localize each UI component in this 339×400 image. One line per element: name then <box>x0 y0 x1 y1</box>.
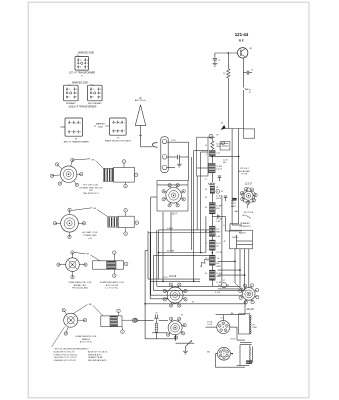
wire switch to speaker <box>246 215 251 218</box>
svg-text:25: 25 <box>223 73 225 75</box>
plug LP <box>154 315 156 319</box>
svg-text:L5: L5 <box>251 70 253 72</box>
feed row y275.1 <box>218 274 245 276</box>
wire bus x150.2 <box>149 233 151 299</box>
tube V7 socket <box>166 188 182 204</box>
wire R7 down <box>211 280 213 286</box>
svg-text:A TO C PCS.: A TO C PCS. <box>80 341 93 344</box>
output transformer box <box>239 314 250 334</box>
antenna terminal strip TS1 <box>161 137 168 173</box>
choke coil L10 <box>249 346 250 364</box>
svg-text:P2: P2 <box>115 131 117 133</box>
svg-text:P2: P2 <box>71 131 73 133</box>
feed row y270.1 <box>218 269 240 271</box>
wire bus x200.7 <box>200 152 202 253</box>
svg-text:L5: L5 <box>217 258 219 260</box>
wire L5 to L6 <box>211 149 213 150</box>
tube V5 envelope outline <box>242 188 256 203</box>
svg-text:RED (BROADCAST): RED (BROADCAST) <box>88 359 107 362</box>
pin 1 of L3 <box>113 251 117 255</box>
bus row y232.5 <box>148 232 212 234</box>
svg-text:W: W <box>192 302 194 304</box>
svg-text:400 V: 400 V <box>216 198 222 200</box>
terminal G <box>162 165 167 170</box>
wire Q1 emitter down <box>242 58 244 71</box>
wire down to shield box <box>242 90 244 129</box>
transistor Q1 (RF) <box>238 48 248 58</box>
svg-text:4-5: 4-5 <box>216 246 219 248</box>
svg-text:P1: P1 <box>80 60 82 62</box>
coil L8 winding block <box>210 186 214 193</box>
svg-text:400: 400 <box>216 263 219 265</box>
pilot lamp DS1 <box>133 318 137 322</box>
detector diode CR1 <box>221 283 226 288</box>
svg-text:R.F.: R.F. <box>239 38 245 42</box>
tube V10 socket (inside pins) <box>218 347 231 360</box>
svg-text:BLUE-GRY TO TR-LTD: BLUE-GRY TO TR-LTD <box>54 351 75 353</box>
wire bend 235 to socket <box>235 283 243 291</box>
svg-text:12J-28: 12J-28 <box>246 308 254 311</box>
svg-text:45: 45 <box>205 197 207 199</box>
svg-text:45: 45 <box>224 241 226 243</box>
IF shield box <box>197 137 208 176</box>
resistor R3 block <box>209 226 215 236</box>
svg-text:P/N LB-LBL-BB1: P/N LB-LBL-BB1 <box>72 288 88 290</box>
wire V8 down <box>175 335 177 341</box>
svg-text:OHM: OHM <box>252 327 257 329</box>
svg-text:A.C. ANT. COIL: A.C. ANT. COIL <box>82 231 98 234</box>
coil L1 form outline <box>113 167 134 182</box>
bottom rail y338.8 <box>145 338 175 340</box>
svg-text:WAVE DETECTOR UNITS: WAVE DETECTOR UNITS <box>105 139 132 142</box>
wire stub into T4 <box>61 126 66 128</box>
pin 2 of L1 <box>134 173 138 177</box>
pin 3 of L4 <box>121 330 125 334</box>
wire bus x156.8 <box>156 230 158 286</box>
rail y314.7 <box>216 314 245 316</box>
svg-text:5 MEG: 5 MEG <box>167 228 173 230</box>
svg-text:(IN FRONT): (IN FRONT) <box>240 226 251 228</box>
svg-text:60 CYCLE: 60 CYCLE <box>244 212 254 214</box>
wire S3 pin1 to node N7 <box>74 253 86 254</box>
wire V9 top to rail <box>222 315 224 321</box>
coil L2 (ant coil) winding <box>108 217 118 227</box>
pin 1 of L1 <box>122 160 126 164</box>
svg-text:BAL: BAL <box>235 210 238 213</box>
wire S1 pin2 to node N5 <box>72 159 90 160</box>
wire pot to ground <box>184 346 186 351</box>
divider in power box <box>236 235 238 249</box>
svg-text:LC TO LT KC.: LC TO LT KC. <box>106 288 119 290</box>
svg-text:40 OHM: 40 OHM <box>167 250 174 252</box>
svg-text:1ST. I-F TRANSFORMER: 1ST. I-F TRANSFORMER <box>69 71 96 74</box>
svg-text:SIDE: SIDE <box>98 126 104 128</box>
wire node N5 to coil L1 <box>96 161 104 169</box>
potentiometer wiper <box>176 342 195 344</box>
svg-text:3RD I-F TRANSFORMER: 3RD I-F TRANSFORMER <box>63 140 89 143</box>
tube socket V2 bottom view <box>61 215 79 233</box>
svg-text:P1: P1 <box>69 89 71 91</box>
svg-text:.05: .05 <box>204 273 207 275</box>
stub chain to bus y150.5 <box>194 150 209 152</box>
coil L3 broadcast coil <box>93 261 124 269</box>
capacitor C3 <box>243 72 246 74</box>
svg-text:MARKED SIDE: MARKED SIDE <box>72 82 88 85</box>
wire bend x225 row <box>224 216 226 231</box>
svg-text:.1: .1 <box>205 243 207 245</box>
svg-text:MEG: MEG <box>216 232 221 234</box>
wire volume box down <box>155 332 157 339</box>
IF tube V7 shield box <box>157 181 188 212</box>
wire bus x153.6 <box>153 255 155 290</box>
svg-text:GREEN LYB MC: GREEN LYB MC <box>88 357 104 359</box>
junction x145 y303.8 <box>144 303 146 305</box>
feed row y286.3 <box>157 285 241 287</box>
pointer line to color table <box>52 327 65 347</box>
svg-text:45: 45 <box>181 315 183 317</box>
wire row y365.4 <box>237 364 250 366</box>
wire node N7 to coil L3 <box>91 255 101 261</box>
coil L2 form outline <box>118 216 134 228</box>
tube V8 socket (output) <box>168 321 182 335</box>
tube socket V1 bottom view <box>60 166 77 183</box>
wire R3 to R4 <box>211 236 213 240</box>
svg-text:(A): (A) <box>139 96 142 99</box>
svg-text:LPG: LPG <box>171 140 175 142</box>
resistor R4 block <box>209 240 215 250</box>
svg-text:(TUNING UNIT) P/N LTS: (TUNING UNIT) P/N LTS <box>79 187 103 189</box>
pin 3 of L3 <box>113 274 117 278</box>
svg-text:P1: P1 <box>93 89 95 91</box>
svg-text:PRIMARY: PRIMARY <box>66 102 76 105</box>
svg-text:(2ND) I-F TRANSFORMER: (2ND) I-F TRANSFORMER <box>69 105 97 108</box>
svg-text:L5: L5 <box>249 92 251 94</box>
svg-text:L5: L5 <box>221 317 223 319</box>
feed row y290.6 <box>154 290 245 292</box>
svg-text:P GRN-Y PTD TO TNT LB.: P GRN-Y PTD TO TNT LB. <box>54 354 78 356</box>
svg-text:TUNING UNIT: TUNING UNIT <box>83 235 97 237</box>
chain rail to spine <box>208 136 215 138</box>
wire bus x148 <box>147 231 149 279</box>
junction dots power feeds <box>234 261 236 263</box>
resistor R0 zigzag top <box>211 141 214 149</box>
svg-text:LT5 VOLT: LT5 VOLT <box>240 168 250 170</box>
svg-text:L5 MF: L5 MF <box>216 282 222 284</box>
wire terminal B to capacitor C1 <box>167 156 177 158</box>
bus row y252.5 with label <box>159 252 206 254</box>
svg-text:2-3 4.5: 2-3 4.5 <box>216 168 222 170</box>
svg-text:SECONDARY: SECONDARY <box>88 102 102 105</box>
wire feeds from power box down to V6 <box>234 249 236 283</box>
svg-text:L3: L3 <box>205 189 207 191</box>
pin 2 of L2 <box>135 221 139 225</box>
feed row y295.2 <box>150 294 242 296</box>
wire V10 right stub <box>230 353 233 355</box>
svg-text:BATT: BATT <box>231 205 237 208</box>
wire bus x158.5 <box>158 230 160 279</box>
wire bend to L9 bottom <box>237 339 245 341</box>
tube socket V3 wafer view <box>66 258 80 272</box>
transformer T1 pin view <box>75 57 89 71</box>
transformer T5 wave detector pin view <box>110 118 127 135</box>
wire V10 drop and bottom rail <box>214 354 216 368</box>
volume control box <box>155 323 158 332</box>
svg-text:L-40: L-40 <box>216 236 220 238</box>
svg-text:.1: .1 <box>205 154 207 156</box>
svg-text:P2: P2 <box>87 63 89 65</box>
wire chain A spine <box>211 138 213 141</box>
svg-text:B2 45: B2 45 <box>231 338 236 340</box>
small cap row 216 <box>217 215 219 218</box>
svg-text:BAND B: BAND B <box>82 338 90 341</box>
svg-text:MARKED: MARKED <box>96 123 106 126</box>
tube V6 socket <box>243 288 256 301</box>
transformer T2 primary pin view <box>64 85 79 101</box>
svg-text:P1: P1 <box>71 123 73 125</box>
svg-text:BROAD. SET: BROAD. SET <box>74 284 87 287</box>
trimmer caps right of chain <box>218 175 221 177</box>
wire R4 to R5 <box>211 250 213 255</box>
feed row y261.3 <box>218 260 235 262</box>
wire junction row y156.4 <box>215 155 239 157</box>
bus row y281.3 <box>150 280 200 282</box>
wire below C3 <box>242 71 244 88</box>
svg-text:T1-LB: T1-LB <box>207 324 213 326</box>
wire S4 pin to node N8 <box>74 304 88 313</box>
wire antenna lead to plug P1 <box>141 146 153 148</box>
svg-text:LTD.: LTD. <box>89 190 94 192</box>
bus row y279.1 label LPG <box>148 278 200 280</box>
bus x205.9 <box>205 216 207 252</box>
capacitor C1 <box>177 155 179 159</box>
wire bus x238 down <box>238 129 240 224</box>
wire V5 cathode down <box>247 203 249 209</box>
resistor R2 block <box>209 203 215 214</box>
wire Q1 base left <box>215 52 238 54</box>
shield box top right <box>243 129 254 138</box>
wire bend into radio box <box>230 223 239 225</box>
wire bus x145 down <box>144 251 146 321</box>
svg-text:R.F. OSC COIL: R.F. OSC COIL <box>84 185 100 187</box>
resistor R5 block <box>209 255 215 265</box>
svg-text:OHM: OHM <box>216 276 221 278</box>
svg-text:.05: .05 <box>204 207 207 209</box>
wire bus x228 down <box>227 53 229 69</box>
bracket row y298.8 <box>150 298 168 300</box>
svg-text:K: K <box>80 131 81 133</box>
svg-text:P1: P1 <box>115 122 117 124</box>
svg-text:K: K <box>76 97 77 99</box>
svg-text:LT3 45: LT3 45 <box>216 252 222 254</box>
pin 3 of L1 <box>124 184 128 188</box>
capacitor C2 bypass <box>214 53 216 58</box>
terminal A <box>162 139 167 144</box>
wire L7 to L8 <box>211 173 213 183</box>
ground (C2) <box>213 62 218 64</box>
svg-text:YELLOW LYT TO LTT KC.: YELLOW LYT TO LTT KC. <box>54 357 78 359</box>
wire V6 down to output box <box>244 300 246 314</box>
wire bus x197.2 <box>196 176 198 230</box>
svg-text:K: K <box>124 131 125 133</box>
svg-text:TAG NOTE PC 4: TAG NOTE PC 4 <box>83 192 100 195</box>
svg-text:* MY COLOR (SPECS) FREQUENCY:: * MY COLOR (SPECS) FREQUENCY: <box>54 348 90 350</box>
svg-text:K: K <box>87 66 88 68</box>
wire bus x188.5 (ant feed) <box>188 142 190 180</box>
svg-text:B+: B+ <box>100 89 102 91</box>
wire terminal G right <box>167 166 175 168</box>
second bus x221.9 <box>221 195 223 283</box>
svg-text:B+: B+ <box>87 60 89 62</box>
inner rail of shield box <box>157 184 188 186</box>
svg-text:L5: L5 <box>218 60 220 62</box>
svg-text:K: K <box>100 97 101 99</box>
wire C1 to bus <box>180 156 189 158</box>
wire V8 bottom to rail <box>175 335 177 339</box>
resistor R6 diagonal <box>200 258 208 266</box>
junction Q1 base bus <box>228 52 230 54</box>
power unit box <box>230 230 253 249</box>
svg-text:4 100: 4 100 <box>215 292 221 294</box>
bus row y255.3 <box>154 254 210 256</box>
svg-text:B+: B+ <box>119 122 121 124</box>
choke coil L9 <box>250 315 251 334</box>
pin 2 of L3 <box>124 262 128 266</box>
wire bus x232 down to V5 area <box>231 129 233 226</box>
svg-text:SOLAR BAT: SOLAR BAT <box>239 170 251 173</box>
wire terminal A to bus <box>167 141 189 143</box>
coil L1 (R.F. OSC coil) winding <box>103 168 113 181</box>
wire L9 bottom rails <box>240 342 252 344</box>
svg-text:P2: P2 <box>100 93 102 95</box>
svg-text:121-44: 121-44 <box>235 32 249 37</box>
capacitor C4 with value 35 <box>245 88 249 91</box>
resistor R7 block <box>209 270 215 280</box>
svg-text:OHM: OHM <box>216 266 221 268</box>
svg-text:B+: B+ <box>76 89 78 91</box>
ground (pot) <box>183 350 188 352</box>
pin 3 of L2 <box>124 232 128 236</box>
wire lamp right <box>137 319 154 321</box>
coil L8 loops <box>209 183 215 184</box>
svg-text:SPEAKER: SPEAKER <box>240 222 250 225</box>
wire row y332.8 into V8 <box>152 332 168 334</box>
pin 1 of L2 <box>124 209 128 213</box>
svg-text:MARKED SIDE: MARKED SIDE <box>78 52 94 55</box>
resistor R1 <box>227 69 230 78</box>
feed row y288.9 <box>218 288 243 290</box>
svg-text:12J-27: 12J-27 <box>245 182 253 185</box>
svg-text:L5: L5 <box>205 145 207 147</box>
svg-text:P-TTR: P-TTR <box>241 174 247 176</box>
stub y168 <box>197 167 209 169</box>
svg-text:RADIO: RADIO <box>239 231 246 234</box>
tube V11 socket <box>167 287 183 303</box>
wire node N6 to coil L2 <box>97 210 108 217</box>
wire bus x193.7 <box>193 151 195 282</box>
wire LP to volume box <box>155 320 157 323</box>
pin of T1A <box>222 142 225 145</box>
svg-text:12J-7: 12J-7 <box>172 212 179 215</box>
svg-text:P2: P2 <box>76 93 78 95</box>
terminal B <box>162 155 167 160</box>
pin circle at L8 <box>216 190 220 194</box>
wire L6 to L7 <box>211 156 213 163</box>
wire V9 left feed <box>206 326 217 328</box>
bus row y229.9 with label 5MEG <box>159 229 213 231</box>
svg-text:BLUE 70 V TO LB KC: BLUE 70 V TO LB KC <box>88 351 108 353</box>
wire L8 down <box>211 193 213 202</box>
wire S2 pin1 to node N6 <box>72 208 93 211</box>
component blob left of V5 <box>233 198 237 200</box>
svg-text:B+: B+ <box>75 123 77 125</box>
tube socket V4 wafer view <box>64 313 78 327</box>
antenna A1 symbol <box>135 105 145 126</box>
svg-text:L5: L5 <box>224 225 226 227</box>
svg-text:ANT. PLUG: ANT. PLUG <box>135 99 146 102</box>
tube V5 socket <box>244 191 253 200</box>
wire lamp row to volume <box>159 319 168 321</box>
svg-text:ORANGE LH TO LTS KC: ORANGE LH TO LTS KC <box>54 359 77 362</box>
wire V9 right to bend <box>230 326 237 328</box>
stub chain to bus y152 <box>201 151 209 153</box>
svg-text:LT5: LT5 <box>252 324 255 326</box>
svg-text:SOMETHING OSC COIL: SOMETHING OSC COIL <box>68 282 92 284</box>
wire bus x163 <box>162 212 164 281</box>
wire bus x171 <box>170 212 172 253</box>
wire R2 to R3 <box>211 214 213 227</box>
stub row y216.3 <box>212 215 225 217</box>
core line L10 <box>251 347 253 363</box>
wire node A row <box>224 128 244 130</box>
ground (C1) <box>177 163 182 165</box>
svg-text:BCD. LB 530: BCD. LB 530 <box>106 285 119 287</box>
svg-text:WHITE A-B KC: WHITE A-B KC <box>88 353 102 356</box>
svg-text:12J-26: 12J-26 <box>169 275 177 278</box>
transformer T2 secondary pin view <box>88 85 103 101</box>
coil L7 <box>208 163 215 172</box>
svg-text:400: 400 <box>223 162 226 164</box>
pin 2 of L4 <box>134 318 138 322</box>
wire node N8 to coil L4 <box>93 306 103 316</box>
wire bus x191.5 <box>191 157 193 250</box>
svg-text:400: 400 <box>216 208 219 210</box>
node A arrow <box>221 125 226 130</box>
terminal GB <box>209 134 213 138</box>
svg-text:SOMETHING ANTD COIL: SOMETHING ANTD COIL <box>100 281 125 284</box>
wire C1 to ground <box>178 157 180 164</box>
wire R5 to R7 <box>211 265 213 270</box>
coil L6 <box>209 150 215 156</box>
wire antenna lead down <box>140 125 142 146</box>
tube V9 socket (inside pins) <box>217 321 230 334</box>
svg-text:05: 05 <box>205 231 207 233</box>
transformer T4 pin view <box>65 118 83 136</box>
wire V10 left feed <box>215 353 217 355</box>
svg-text:45: 45 <box>221 191 223 193</box>
plug P1 jaw <box>152 143 157 148</box>
svg-text:LPG: LPG <box>164 277 168 279</box>
svg-text:L-40: L-40 <box>216 221 220 223</box>
L10 bottom terminal block <box>246 361 251 364</box>
coil L4 RF coil <box>101 316 122 327</box>
svg-text:PLATE: PLATE <box>232 236 239 239</box>
wire R1 to node A row <box>227 78 229 128</box>
svg-text:SOMETHING RF COIL: SOMETHING RF COIL <box>75 336 97 338</box>
pin 1 of L4 <box>117 309 121 313</box>
trimmer block T1A <box>220 142 230 150</box>
long row y303.8 <box>145 303 246 305</box>
wire box to bus x150.7 <box>151 196 157 198</box>
